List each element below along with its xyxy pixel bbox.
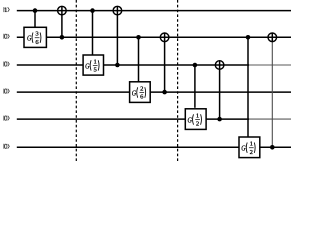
wire q3 right thin segment: [249, 64, 291, 66]
svg-text:G: G: [188, 116, 192, 125]
node |0> label q4: [4, 89, 9, 94]
svg-text:G: G: [132, 89, 136, 98]
node |0> label q2: [4, 34, 9, 39]
svg-text:2: 2: [250, 149, 253, 156]
wire control-to-box block1: [34, 11, 36, 28]
svg-text:1: 1: [250, 141, 253, 148]
cnot target q1: [58, 6, 67, 15]
wire target-to-control cnot4: [219, 61, 221, 119]
control dot cnot4 (q5): [217, 117, 222, 122]
wire cnot5 vertical (thin): [271, 42, 273, 148]
wire control-to-box block2: [92, 11, 94, 55]
cnot target q2 second: [268, 33, 277, 42]
cnot target q2: [160, 33, 169, 42]
dashed separator 2: [177, 0, 179, 162]
wire q6: [17, 146, 291, 148]
node |0> label q6: [4, 144, 9, 149]
control dot cnot5 (q6): [270, 145, 275, 150]
wire target-to-control cnot1: [61, 6, 63, 37]
control dot block5 (q2): [246, 35, 251, 40]
gate box G(1/2) U5 (q6): [239, 137, 260, 158]
gate box G(1/2) U4 (q5): [185, 109, 206, 130]
control dot block4 (q3): [193, 63, 198, 68]
cnot target q3: [215, 61, 224, 70]
dashed separator 1: [75, 0, 77, 162]
svg-text:2: 2: [196, 121, 199, 128]
control dot block2 (q1): [90, 8, 95, 13]
control dot cnot2 (q3): [115, 63, 120, 68]
control dot cnot1 (q2): [60, 35, 65, 40]
control dot cnot3 (q4): [162, 90, 167, 95]
wire control-to-box block4: [194, 65, 196, 108]
wire target-to-control cnot3: [164, 33, 166, 92]
cnot target q1 second: [113, 6, 122, 15]
wire q4: [17, 91, 291, 93]
svg-text:G: G: [241, 144, 245, 153]
svg-text:G: G: [27, 34, 31, 43]
wire control-to-box block5: [247, 37, 249, 137]
node |1> label q1: [4, 7, 9, 12]
svg-text:1: 1: [196, 113, 199, 120]
svg-text:G: G: [85, 62, 89, 71]
node |0> label q5: [4, 116, 9, 121]
wire q5 right thin segment: [249, 118, 291, 120]
gate box G(3/6) U1 (q2): [24, 27, 46, 47]
node |0> label q3: [4, 62, 9, 67]
wire q1: [17, 10, 291, 12]
svg-text:2: 2: [140, 86, 143, 93]
wire control-to-box block3: [138, 37, 140, 82]
wire target-to-control cnot5: [271, 33, 273, 42]
wire target-to-control cnot2: [116, 6, 118, 65]
gate box G(2/6) U3 (q4): [130, 82, 151, 103]
wire q3: [17, 64, 249, 66]
control dot block1 (q1): [33, 8, 38, 13]
wire q5: [17, 118, 249, 120]
svg-text:1: 1: [94, 58, 97, 65]
wire q2: [17, 36, 291, 38]
control dot block3 (q2): [136, 35, 141, 40]
gate box G(1/5) U2 (q3): [83, 55, 103, 75]
